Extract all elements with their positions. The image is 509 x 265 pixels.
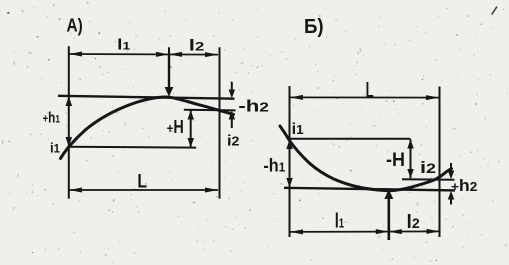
svg-text:-H: -H bbox=[386, 150, 405, 171]
peak pointer arrow (A) bbox=[165, 55, 174, 97]
svg-text:L: L bbox=[137, 172, 147, 193]
dimension +h2 (Б) bbox=[448, 163, 455, 205]
stray pen mark top right bbox=[492, 7, 497, 15]
dimension line L (Б) bbox=[290, 95, 439, 100]
straightedge datum line (A) bbox=[58, 96, 235, 99]
dimension -H (Б) bbox=[407, 139, 414, 178]
line through i1 (Б) bbox=[288, 138, 411, 140]
dimension L (A) bbox=[69, 188, 218, 193]
svg-text:-h2: -h2 bbox=[238, 97, 269, 116]
svg-text:Б): Б) bbox=[304, 16, 324, 38]
svg-text:А): А) bbox=[67, 15, 83, 35]
extension line left end (Б) bbox=[289, 86, 291, 237]
svg-text:i2: i2 bbox=[420, 158, 436, 177]
svg-text:i1: i1 bbox=[50, 139, 60, 155]
extension line right end (A) bbox=[219, 47, 221, 198]
svg-text:l2: l2 bbox=[189, 38, 205, 55]
dimension -h2 (A) bbox=[229, 82, 236, 128]
rail surface curve (Б) bbox=[280, 126, 452, 191]
dimension +H (A) bbox=[188, 110, 195, 147]
extension line left end (A) bbox=[68, 46, 70, 198]
dimension +h1 arrows (A) bbox=[66, 96, 73, 146]
tick at l1/l2 split (A) bbox=[168, 47, 170, 60]
line through i2 (Б) bbox=[402, 178, 455, 181]
svg-text:+H: +H bbox=[167, 117, 184, 137]
dimension line l1/l2 (Б) bbox=[290, 229, 440, 235]
rail surface curve (A) bbox=[61, 97, 234, 158]
extension line right end (Б) bbox=[439, 87, 441, 238]
line through i2 (A) bbox=[184, 109, 236, 112]
svg-text:+h2: +h2 bbox=[451, 176, 477, 195]
svg-text:L: L bbox=[366, 77, 374, 102]
dimension line l1/l2 (A) bbox=[69, 52, 218, 58]
figure label А) bbox=[67, 15, 83, 35]
svg-text:i2: i2 bbox=[227, 133, 240, 150]
straightedge datum line (Б) bbox=[284, 188, 455, 191]
chord line through i1 (A) bbox=[69, 146, 196, 149]
svg-text:i1: i1 bbox=[292, 121, 304, 138]
dimension -h1 arrows (Б) bbox=[286, 140, 293, 188]
svg-text:l2: l2 bbox=[407, 212, 420, 233]
tangent pointer arrow (Б) bbox=[384, 189, 393, 240]
